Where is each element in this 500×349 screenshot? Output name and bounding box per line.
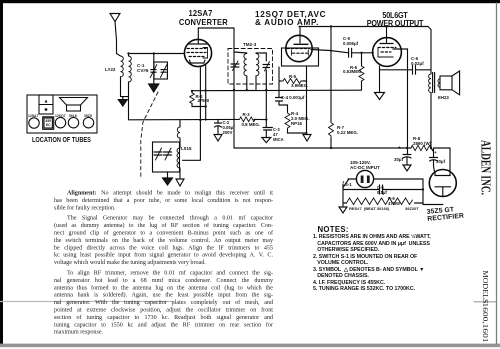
svg-text:1600,1601: 1600,1601 [481, 303, 490, 343]
svg-text:ALDEN INC.: ALDEN INC. [478, 140, 493, 195]
svg-text:MODELS: MODELS [481, 271, 490, 304]
